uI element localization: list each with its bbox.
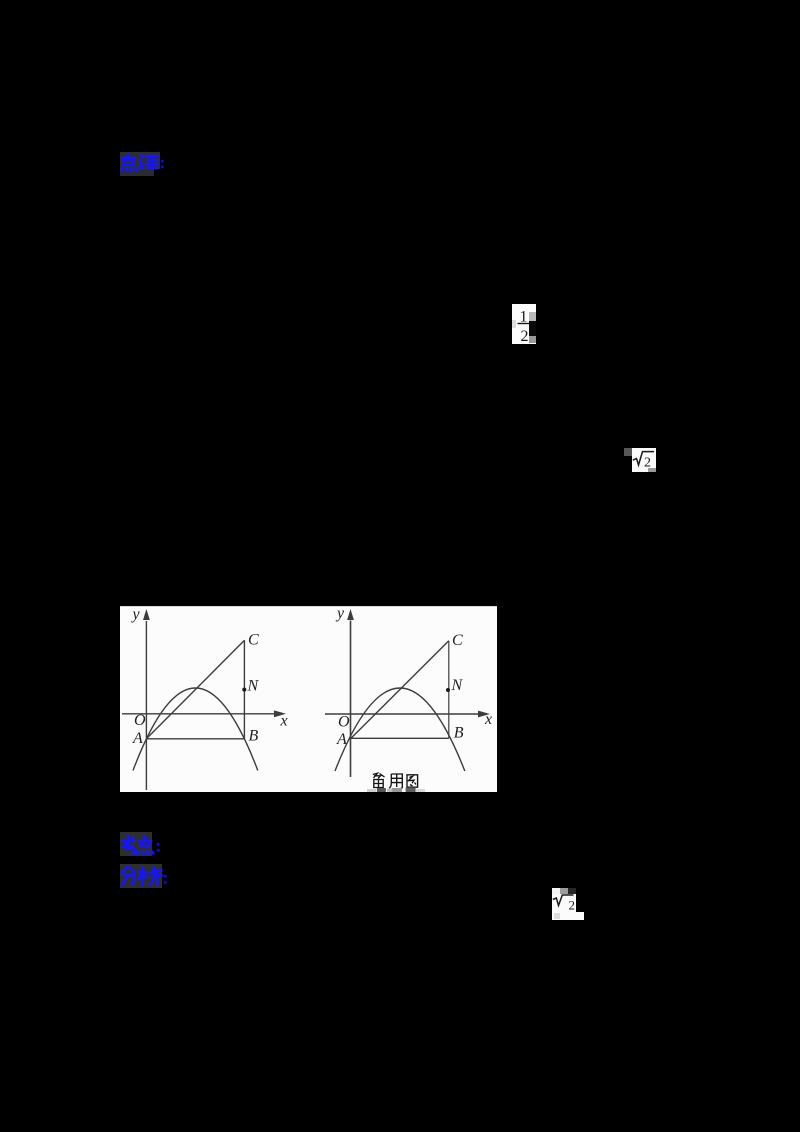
left graph y-axis — [145, 621, 147, 790]
blue label 分析: — [118, 862, 168, 892]
svg-text:C: C — [248, 632, 259, 649]
svg-text:N: N — [451, 677, 464, 694]
svg-text:y: y — [335, 607, 345, 622]
svg-text:x: x — [280, 712, 288, 729]
right graph BC — [448, 641, 450, 739]
figure: white box with two graphs — [120, 606, 497, 607]
图 — [407, 775, 418, 787]
left y arrowhead — [143, 609, 150, 620]
caption 备用图 — [373, 773, 418, 788]
svg-text:2: 2 — [569, 898, 576, 913]
right graph AB — [351, 737, 449, 739]
备 — [373, 773, 385, 778]
svg-text:C: C — [452, 632, 463, 649]
right x arrowhead — [478, 711, 490, 718]
left parabola — [133, 688, 258, 771]
right graph x-axis — [325, 713, 478, 715]
svg-text:B: B — [454, 725, 464, 742]
left graph BC — [243, 640, 245, 739]
svg-text:O: O — [338, 713, 350, 730]
left graph AB — [146, 738, 244, 740]
svg-text:O: O — [134, 712, 146, 729]
svg-text:B: B — [249, 728, 259, 745]
right y arrowhead — [347, 609, 354, 620]
用 — [389, 774, 402, 788]
fraction 1/2 white patch — [512, 304, 536, 344]
gray blocks under caption — [367, 789, 376, 792]
sqrt(2) white patch #2 — [552, 888, 560, 894]
svg-text:y: y — [131, 607, 141, 623]
left line AC — [146, 640, 244, 739]
svg-text:N: N — [247, 677, 260, 694]
left x arrowhead — [274, 710, 286, 717]
svg-text:A: A — [336, 731, 347, 748]
right parabola — [335, 688, 465, 771]
left N dot — [242, 688, 246, 692]
blue label "点评:" top — [118, 150, 168, 180]
right graph y-axis — [350, 621, 352, 778]
right line AC — [351, 641, 449, 739]
left graph x-axis — [122, 713, 274, 715]
svg-text:2: 2 — [644, 456, 651, 471]
svg-text:A: A — [132, 730, 143, 747]
svg-text:2: 2 — [521, 328, 529, 344]
sqrt(2) white patch #1 — [624, 448, 632, 456]
right N dot — [446, 688, 450, 692]
svg-text:x: x — [484, 711, 492, 728]
blue label 考点: — [118, 830, 166, 860]
